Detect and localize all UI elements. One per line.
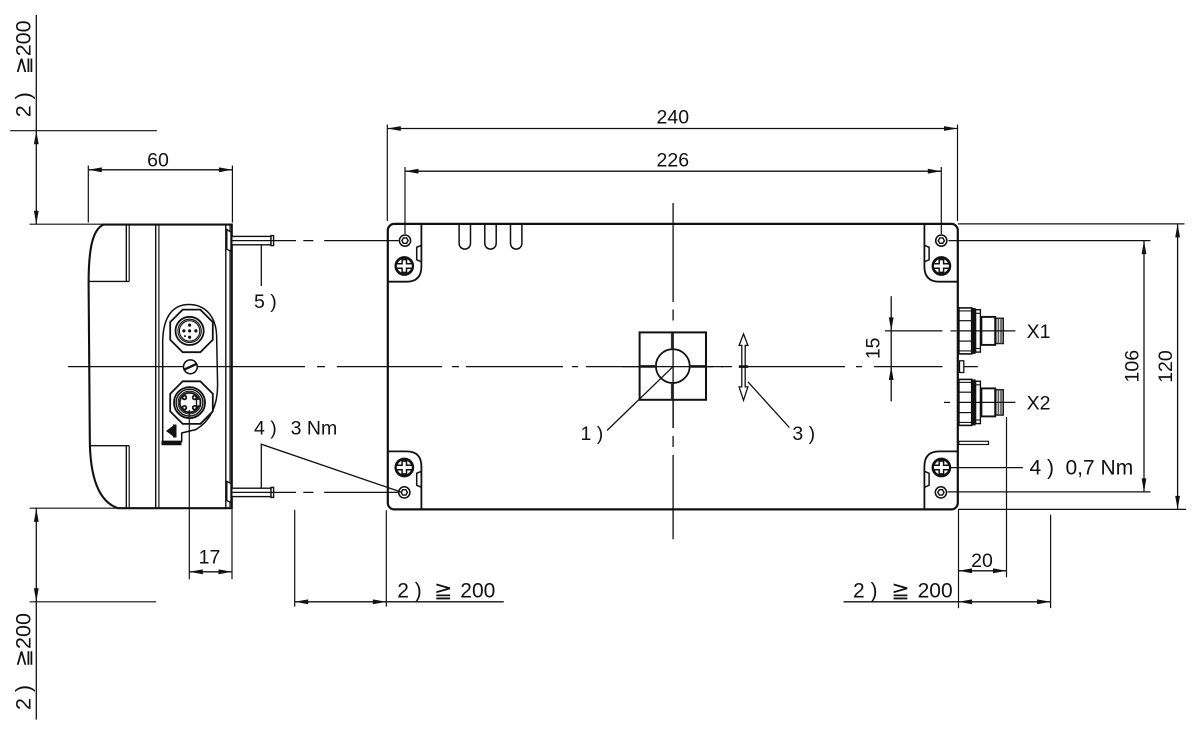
device body (side view) outline bbox=[89, 225, 232, 509]
svg-text:200: 200 bbox=[460, 579, 495, 602]
svg-text:5 ): 5 ) bbox=[254, 291, 277, 313]
dimension 120 bbox=[958, 224, 1186, 510]
side view cover seam bbox=[156, 225, 159, 508]
svg-text:20: 20 bbox=[971, 550, 993, 572]
vent slot 3 bbox=[511, 225, 522, 249]
dimension 20 bbox=[959, 417, 1007, 577]
double arrow symbol 3) bbox=[739, 334, 748, 400]
dimension 2) >=200 bottom-left (vertical) bbox=[12, 508, 157, 719]
flange cut top-right bbox=[924, 225, 957, 282]
flange clip notch bottom-right bbox=[924, 471, 929, 487]
flange cut bottom-right bbox=[924, 451, 957, 508]
device body (top view) bbox=[388, 224, 958, 510]
flange cut top-left bbox=[389, 225, 422, 282]
dimension 106 bbox=[948, 241, 1151, 492]
svg-text:X1: X1 bbox=[1027, 321, 1051, 343]
direction arrow icon (side view) bbox=[166, 425, 177, 438]
vent slot 1 bbox=[459, 225, 470, 249]
pin centerline bottom (dash-dot) bbox=[232, 491, 399, 493]
svg-text:200: 200 bbox=[918, 579, 953, 602]
dimension 226 bbox=[405, 149, 941, 234]
label 4) 3 Nm with leaders bbox=[254, 418, 401, 492]
main horizontal centerline (dash-dot) bbox=[68, 366, 943, 368]
dimension 15 bbox=[862, 296, 956, 401]
svg-text:2 ): 2 ) bbox=[397, 579, 422, 602]
mounting hole 4 bbox=[935, 487, 946, 498]
side view bottom-left recess bbox=[90, 446, 129, 508]
svg-text:3 Nm: 3 Nm bbox=[291, 418, 338, 440]
svg-text:15: 15 bbox=[862, 337, 884, 359]
flange clip notch bottom-left bbox=[417, 471, 422, 487]
svg-text:106: 106 bbox=[1122, 350, 1144, 383]
flange cut bottom-left bbox=[389, 451, 422, 508]
svg-text:1 ): 1 ) bbox=[581, 423, 604, 445]
connector M12 lower (side view) bbox=[170, 381, 213, 424]
svg-text:3 ): 3 ) bbox=[792, 423, 815, 445]
connector X1 (top view) bbox=[959, 308, 1003, 354]
mounting hole 3 bbox=[399, 487, 410, 498]
dimension 240 bbox=[387, 107, 957, 221]
svg-text:2 ) ≧200: 2 ) ≧200 bbox=[12, 613, 36, 710]
svg-text:4 ): 4 ) bbox=[254, 418, 277, 440]
slotted screw (side view) bbox=[184, 360, 198, 374]
dimension 2) >=200 top-left (vertical) bbox=[10, 15, 157, 224]
label X1 bbox=[958, 321, 1050, 343]
dimension 60 bbox=[88, 149, 232, 222]
main vertical centerline (dash-dot) bbox=[672, 203, 674, 539]
svg-text:240: 240 bbox=[657, 107, 690, 129]
cover screw 4 bbox=[933, 459, 950, 476]
pocket step bar (thick) bbox=[162, 441, 182, 446]
svg-text:4 ): 4 ) bbox=[1030, 457, 1055, 480]
connector M12 upper (side view) bbox=[170, 310, 213, 353]
svg-text:17: 17 bbox=[199, 547, 221, 569]
small tab on right edge at centerline bbox=[960, 361, 964, 373]
mounting hole 1 bbox=[399, 235, 410, 246]
connector pocket outline bbox=[163, 305, 218, 442]
svg-text:226: 226 bbox=[657, 149, 690, 171]
cover screw 1 bbox=[396, 258, 413, 275]
svg-text:≧: ≧ bbox=[891, 577, 909, 602]
dimension 2) >=200 bottom-right bbox=[844, 510, 1051, 608]
vent slot 2 bbox=[485, 225, 496, 249]
flange clip notch top-left bbox=[417, 245, 422, 261]
svg-text:2 ) ≧200: 2 ) ≧200 bbox=[12, 20, 36, 117]
label 4) 0,7 Nm with leader bbox=[950, 457, 1133, 480]
center square pad bbox=[607, 332, 723, 431]
flat tab below X2 bbox=[959, 441, 989, 444]
label 3) with leader bbox=[748, 382, 815, 445]
svg-text:120: 120 bbox=[1155, 350, 1177, 383]
dimension 2) >=200 bottom-middle bbox=[295, 510, 504, 607]
back plate tab bottom bbox=[227, 481, 231, 502]
back plate tab top bbox=[227, 229, 231, 251]
svg-text:0,7 Nm: 0,7 Nm bbox=[1066, 457, 1134, 480]
label X2 bbox=[944, 393, 1050, 415]
dimension 17 bbox=[189, 410, 232, 579]
mounting pin top bbox=[232, 236, 274, 246]
label 5) with leader bbox=[254, 245, 277, 313]
svg-text:≧: ≧ bbox=[434, 577, 452, 602]
pin centerline top (dash-dot) bbox=[232, 240, 399, 242]
mounting hole 2 bbox=[936, 235, 947, 246]
flange clip notch top-right bbox=[924, 245, 929, 261]
side view back plate lines bbox=[226, 225, 230, 508]
centerline through side tab bbox=[959, 366, 978, 368]
svg-text:2 ): 2 ) bbox=[853, 579, 878, 602]
svg-text:X2: X2 bbox=[1027, 393, 1051, 415]
side view top-left recess bbox=[89, 225, 129, 281]
cover screw 3 bbox=[396, 459, 413, 476]
connector X2 (top view) bbox=[959, 379, 1003, 425]
cover screw 2 bbox=[933, 258, 950, 275]
mounting pin bottom bbox=[232, 487, 274, 497]
svg-text:60: 60 bbox=[147, 149, 169, 171]
